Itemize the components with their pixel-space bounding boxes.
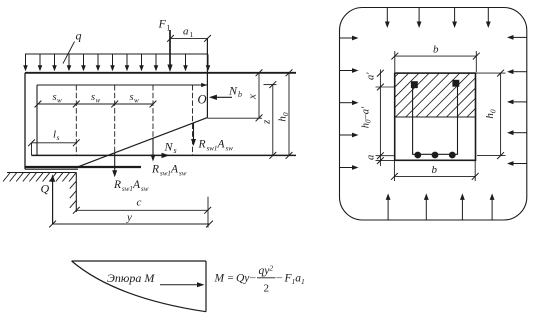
svg-text:R: R bbox=[151, 164, 159, 176]
svg-text:N: N bbox=[164, 140, 174, 154]
stirrup panel left edge bbox=[36, 85, 38, 155]
svg-text:1: 1 bbox=[190, 30, 194, 39]
c-y right riser bbox=[207, 197, 209, 228]
load arrow 6 bbox=[96, 54, 101, 71]
svg-text:A: A bbox=[217, 139, 226, 151]
svg-text:2: 2 bbox=[264, 283, 270, 295]
bottom rebar dot 2 bbox=[432, 152, 439, 159]
confinement boundary rounded rectangle bbox=[340, 8, 527, 221]
top rebar square right bbox=[452, 80, 459, 87]
svg-text:sw1: sw1 bbox=[207, 145, 218, 153]
label Rsw1 Asw 1 bbox=[198, 139, 234, 153]
svg-text:–: – bbox=[249, 272, 256, 284]
svg-text:b: b bbox=[238, 90, 242, 99]
b bottom dimension bbox=[391, 161, 479, 181]
label Nb bbox=[228, 84, 242, 100]
z top reference bar bbox=[264, 84, 277, 86]
bottom pressure arrow 1 bbox=[386, 193, 391, 220]
left pressure arrow 4 bbox=[340, 133, 359, 138]
svg-text:=: = bbox=[228, 272, 234, 284]
left dim ticks bbox=[377, 70, 384, 164]
label h0 minus a-prime bbox=[361, 106, 373, 128]
svg-text:b: b bbox=[432, 164, 438, 176]
svg-text:w: w bbox=[134, 97, 139, 105]
load arrow 2 bbox=[38, 54, 43, 71]
moment formula bbox=[214, 264, 305, 295]
extension line at section bottom bbox=[376, 160, 395, 162]
inclined crack line bbox=[78, 118, 207, 167]
svg-text:sw: sw bbox=[141, 185, 149, 193]
sw dimension line bbox=[35, 101, 157, 108]
svg-text:R: R bbox=[198, 139, 206, 151]
stirrup in section bbox=[413, 83, 458, 155]
beam bottom edge at support bbox=[25, 168, 78, 170]
svg-text:h0–a′: h0–a′ bbox=[361, 106, 373, 128]
ground line under support bbox=[7, 172, 76, 174]
dimension c bbox=[73, 197, 211, 214]
svg-text:Эпюра М: Эпюра М bbox=[107, 271, 155, 285]
bottom pressure arrow 3 bbox=[460, 193, 465, 220]
ls dimension left riser bbox=[31, 143, 33, 156]
top pressure arrow 3 bbox=[452, 8, 457, 28]
label sw 3 bbox=[130, 92, 140, 105]
right pressure arrow 5 bbox=[507, 161, 527, 166]
compression zone bottom line bbox=[207, 117, 262, 119]
stirrup force arrow 3 bbox=[112, 153, 117, 178]
svg-text:s: s bbox=[53, 92, 57, 103]
moment diagram top line bbox=[72, 260, 206, 262]
dimension h0 left figure bbox=[277, 69, 293, 158]
svg-text:sw: sw bbox=[226, 145, 234, 153]
bottom pressure arrow 4 bbox=[490, 193, 495, 220]
load arrow 7 bbox=[110, 54, 115, 71]
svg-text:–: – bbox=[276, 272, 283, 284]
svg-text:A: A bbox=[132, 179, 141, 191]
support edge hatching bbox=[70, 181, 76, 208]
stirrup dashed line 1 bbox=[75, 85, 77, 155]
svg-text:sw: sw bbox=[179, 170, 187, 178]
beam top chord line bbox=[25, 72, 296, 74]
extension line at bottom bar level bbox=[376, 155, 395, 157]
stirrup force arrow 2 bbox=[151, 138, 156, 162]
cut section vertical through load bbox=[206, 38, 208, 117]
stirrup dashed line 3 bbox=[152, 85, 154, 155]
extension line at top bar level bbox=[376, 86, 396, 88]
svg-text:1: 1 bbox=[167, 24, 171, 33]
moment diagram curve bbox=[72, 261, 206, 312]
load arrow 12 bbox=[206, 54, 211, 71]
h0 extension line top bbox=[476, 72, 506, 74]
svg-text:qy2: qy2 bbox=[259, 264, 274, 278]
svg-text:sw1: sw1 bbox=[122, 185, 133, 193]
label q with leader bbox=[63, 29, 82, 64]
svg-text:h0: h0 bbox=[484, 109, 498, 119]
label sw 2 bbox=[91, 92, 101, 105]
svg-text:N: N bbox=[228, 84, 238, 98]
load arrow 1 bbox=[23, 54, 28, 71]
stirrup dashed line 4 bbox=[192, 85, 194, 155]
svg-text:w: w bbox=[57, 97, 62, 105]
svg-text:y: y bbox=[126, 212, 132, 224]
dimension z bbox=[261, 81, 277, 159]
moment diagram right edge bbox=[205, 261, 207, 312]
h0 right dimension bbox=[484, 70, 504, 159]
load arrow 9 bbox=[139, 54, 144, 71]
right pressure arrow 4 bbox=[507, 130, 527, 135]
top pressure arrow 2 bbox=[417, 8, 422, 28]
svg-text:M: M bbox=[214, 273, 226, 285]
load arrow 8 bbox=[125, 54, 130, 71]
dimension a1 bbox=[167, 26, 211, 42]
longitudinal rebar bar (thick) bbox=[25, 166, 141, 168]
svg-text:w: w bbox=[96, 97, 101, 105]
b top dimension bbox=[391, 44, 479, 73]
svg-text:s: s bbox=[130, 92, 134, 103]
reaction Q arrow bbox=[50, 174, 55, 224]
svg-text:O: O bbox=[198, 93, 207, 107]
beam left edge bbox=[24, 73, 26, 169]
label Rsw Asw 3 bbox=[113, 179, 149, 193]
svg-text:a: a bbox=[366, 155, 377, 160]
svg-text:a: a bbox=[183, 26, 189, 38]
stirrup dashed line 2 bbox=[114, 85, 116, 155]
top pressure arrow 1 bbox=[385, 8, 390, 28]
stirrup force arrow 1 bbox=[191, 123, 196, 146]
moment diagram arrow bbox=[160, 282, 205, 287]
svg-text:A: A bbox=[170, 164, 179, 176]
dimension y bbox=[49, 212, 213, 228]
right pressure arrow 3 bbox=[507, 100, 527, 105]
svg-text:x: x bbox=[247, 94, 259, 100]
bottom rebar dot 1 bbox=[414, 152, 421, 159]
left pressure arrow 1 bbox=[340, 36, 359, 41]
load arrow 11 bbox=[183, 54, 188, 71]
load arrow 3 bbox=[52, 54, 57, 71]
svg-text:b: b bbox=[433, 44, 439, 56]
compression zone bottom boundary bbox=[395, 116, 476, 118]
left pressure arrow 5 bbox=[340, 165, 359, 170]
label Epyura M bbox=[107, 271, 155, 285]
distributed load top line bbox=[25, 53, 208, 55]
dimension x bbox=[247, 69, 263, 121]
load arrow 5 bbox=[81, 54, 86, 71]
svg-text:q: q bbox=[76, 29, 82, 43]
label Rsw Asw 2 bbox=[151, 164, 187, 178]
svg-text:c: c bbox=[137, 197, 142, 209]
svg-text:z: z bbox=[261, 119, 273, 125]
dimension ls bbox=[28, 129, 80, 147]
svg-text:s: s bbox=[174, 146, 177, 155]
ground hatching bbox=[3, 173, 76, 182]
svg-text:s: s bbox=[91, 92, 95, 103]
right pressure arrow 1 bbox=[507, 35, 527, 40]
cross-section outline bbox=[395, 73, 476, 160]
stirrup panel top line bbox=[37, 83, 207, 87]
h0 extension line bottom bbox=[477, 155, 506, 157]
support right edge bbox=[75, 173, 77, 213]
svg-text:F: F bbox=[158, 17, 167, 31]
svg-text:h0: h0 bbox=[277, 112, 291, 122]
force F1 arrow bbox=[167, 30, 172, 72]
force Nb arrow bbox=[209, 95, 232, 100]
tension chord line Ns level bbox=[32, 154, 297, 156]
top rebar square left bbox=[411, 81, 418, 88]
top pressure arrow 4 bbox=[486, 8, 491, 28]
load arrow 4 bbox=[67, 54, 72, 71]
bottom rebar dot 3 bbox=[449, 152, 456, 159]
compression zone hatching bbox=[355, 73, 511, 117]
right pressure arrow 2 bbox=[507, 69, 527, 74]
svg-text:sw1: sw1 bbox=[160, 170, 171, 178]
svg-text:F1a1: F1a1 bbox=[284, 273, 305, 287]
label sw 1 bbox=[53, 92, 63, 105]
svg-text:R: R bbox=[113, 179, 121, 191]
bottom pressure arrow 2 bbox=[424, 193, 429, 220]
label F1 bbox=[158, 17, 171, 33]
left pressure arrow 2 bbox=[340, 68, 359, 73]
svg-text:Q: Q bbox=[41, 182, 50, 196]
svg-text:s: s bbox=[57, 133, 60, 142]
svg-text:Qy: Qy bbox=[236, 273, 250, 285]
svg-text:a′: a′ bbox=[366, 72, 377, 80]
left dimension chain line bbox=[379, 70, 381, 167]
force Ns arrowhead bbox=[162, 153, 170, 158]
left pressure arrow 3 bbox=[340, 100, 359, 105]
label Ns bbox=[164, 140, 177, 156]
load arrow 10 bbox=[154, 54, 159, 71]
